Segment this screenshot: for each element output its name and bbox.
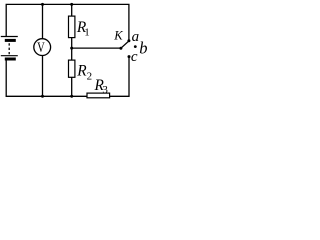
wire middle rail xyxy=(72,47,121,49)
contact b dot xyxy=(134,45,137,48)
wire R2 bottom xyxy=(71,77,73,96)
svg-text:1: 1 xyxy=(84,27,90,39)
svg-text:3: 3 xyxy=(102,84,108,96)
switch K arm xyxy=(121,41,129,48)
junction dot middle xyxy=(70,47,73,50)
svg-text:V: V xyxy=(37,40,45,56)
contact a dot xyxy=(127,39,130,42)
wire R2 top xyxy=(71,48,73,60)
battery plate short thick bottom xyxy=(5,58,16,61)
wire bottom right + riser to c xyxy=(110,57,129,97)
resistor R2 xyxy=(69,60,75,77)
switch pole dot xyxy=(119,47,122,50)
resistor R1 xyxy=(69,16,75,37)
battery plate long bottom xyxy=(1,55,18,57)
svg-text:2: 2 xyxy=(87,70,93,82)
svg-text:K: K xyxy=(113,29,123,43)
resistor R3 xyxy=(87,93,110,98)
voltmeter V xyxy=(34,39,51,56)
junction dot bottom R2 xyxy=(70,95,73,98)
wire voltmeter branch bottom xyxy=(42,56,44,97)
wire left rail bottom xyxy=(6,61,87,97)
svg-text:b: b xyxy=(139,39,147,58)
junction dot top R1 xyxy=(70,3,73,6)
junction dot top voltmeter xyxy=(41,3,44,6)
battery plate long top xyxy=(1,36,18,38)
junction dot bottom voltmeter xyxy=(41,95,44,98)
contact c dot xyxy=(128,55,131,58)
battery B1 xyxy=(1,37,18,60)
wire R1 branch top xyxy=(71,4,73,16)
wire R1 to middle xyxy=(71,38,73,49)
svg-text:a: a xyxy=(132,29,140,45)
wire top rail xyxy=(6,4,129,40)
battery plate short thick top xyxy=(5,39,16,42)
svg-text:c: c xyxy=(131,49,138,65)
wire voltmeter branch top xyxy=(42,4,44,38)
battery dashed middle cells xyxy=(8,43,10,54)
